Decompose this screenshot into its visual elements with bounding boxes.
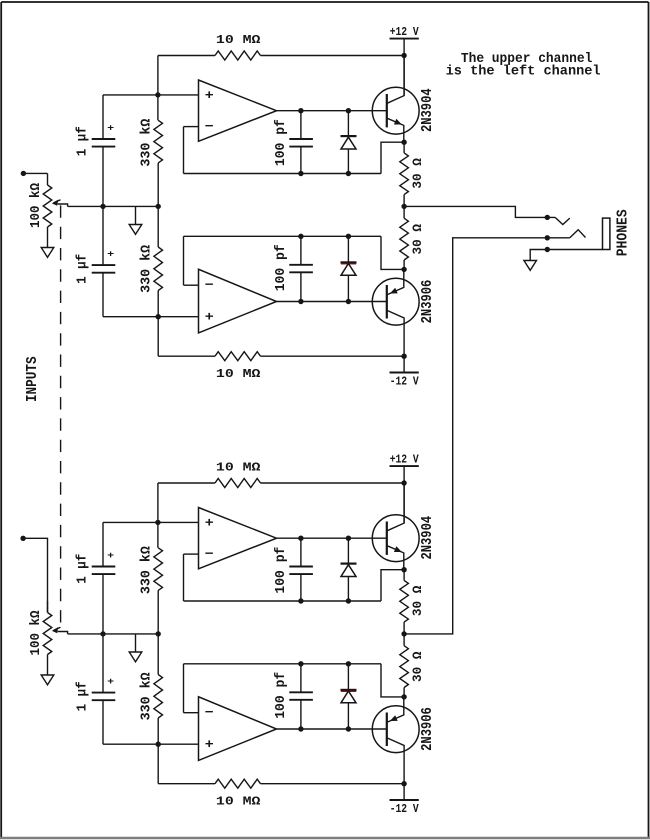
resistor R4 30 Ω top lead: [403, 142, 405, 153]
wire U1 feedback bottom rail: [184, 173, 382, 175]
capacitor C3 1 µf: [92, 692, 116, 694]
wire to -12V: [403, 356, 405, 372]
capacitor C2 100 pf top lead: [300, 538, 302, 566]
lower channel: [28, 452, 436, 816]
jack ring contact: [570, 230, 586, 238]
svg-text:330 kΩ: 330 kΩ: [139, 244, 155, 293]
svg-text:+12 V: +12 V: [390, 452, 419, 466]
ground under pot: [41, 248, 54, 258]
resistor R2 330 kΩ: [154, 548, 163, 591]
diode D1 top lead: [347, 538, 349, 563]
resistor R2 bottom lead: [157, 163, 159, 207]
transistor Q1 collector: [387, 56, 404, 104]
svg-text:100 kΩ: 100 kΩ: [28, 182, 44, 228]
svg-text:-12 V: -12 V: [390, 375, 419, 389]
svg-text:30 Ω: 30 Ω: [410, 224, 425, 255]
node U2 output-diode junction: [346, 726, 351, 731]
wire to -12V: [403, 784, 405, 800]
op-amp U2: [199, 269, 277, 333]
wire left drop to + input: [157, 483, 159, 522]
svg-text:100 pf: 100 pf: [274, 244, 289, 291]
diode D1 bottom lead: [347, 577, 349, 602]
potentiometer wiper arrow: [58, 632, 68, 634]
node U2 output-cap junction: [298, 299, 303, 304]
wire bottom rail right segment: [261, 783, 405, 785]
svg-text:2N3906: 2N3906: [420, 707, 436, 751]
transistor Q1 base bar: [386, 522, 388, 555]
node diode-rail junction: [346, 171, 351, 176]
node Q2 emitter junction: [401, 694, 406, 699]
capacitor C4 100 pf: [289, 691, 313, 693]
node + input junction: [155, 520, 160, 525]
svg-text:1 µf: 1 µf: [75, 126, 90, 156]
potentiometer R3 100 kΩ top lead: [47, 173, 49, 185]
resistor R4 30 Ω: [400, 580, 409, 622]
diode D2 cathode bar: [341, 261, 357, 263]
resistor R4 bottom lead: [403, 195, 405, 207]
svg-text:+: +: [107, 249, 114, 259]
capacitor C2 bottom lead: [300, 147, 302, 174]
transistor Q2 2N3906 circle: [372, 706, 419, 753]
transistor Q1 emitter: [387, 546, 404, 570]
resistor R2 330 kΩ top lead: [157, 95, 159, 120]
ground phones: [524, 261, 537, 271]
node sleeve junction: [545, 247, 550, 252]
node mid-cap junction: [100, 204, 105, 209]
node U2 output-cap junction: [298, 726, 303, 731]
node bottom rail junction: [401, 781, 406, 786]
transistor Q1 2N3904 circle: [372, 515, 419, 562]
node Q2 emitter junction: [401, 267, 406, 272]
wire top rail right segment: [261, 55, 405, 57]
svg-text:10 MΩ: 10 MΩ: [216, 794, 261, 808]
wire upper channel tap to tip: [404, 206, 555, 217]
ground mid: [129, 225, 142, 235]
transistor Q2 base bar: [386, 713, 388, 747]
node + input junction: [155, 92, 160, 97]
wire drop to bottom rail: [157, 744, 159, 784]
capacitor C4 bottom lead: [300, 272, 302, 301]
svg-text:10 MΩ: 10 MΩ: [216, 461, 261, 475]
node C4 top junction: [298, 661, 303, 666]
node diode-rail junction: [346, 598, 351, 603]
svg-text:100 pf: 100 pf: [274, 547, 289, 594]
transistor Q1 emitter: [387, 118, 404, 142]
wire emitter link to rail: [381, 142, 404, 173]
svg-text:330 kΩ: 330 kΩ: [139, 672, 155, 721]
input terminal upper: [21, 171, 26, 176]
svg-text:−: −: [205, 705, 214, 720]
wire emitter link to U2 rail: [381, 236, 404, 269]
capacitor C2 bottom lead: [300, 574, 302, 601]
svg-text:+: +: [107, 677, 114, 687]
wire U2 noninverting rail: [103, 316, 199, 318]
transistor Q1 2N3904 circle: [372, 87, 419, 134]
svg-text:+: +: [205, 88, 214, 103]
node mid-cap junction: [100, 631, 105, 636]
power rail bar +12V: [390, 38, 419, 40]
transistor Q2 emitter: [387, 269, 404, 294]
op-amp U1: [199, 508, 277, 569]
wire U2 inverting input: [184, 712, 199, 714]
wire cap C1 bottom lead: [102, 574, 104, 634]
wire U2 noninverting rail: [103, 743, 199, 745]
node U2 + input junction: [156, 742, 161, 747]
resistor R6 330 kΩ: [154, 675, 163, 719]
node output-diode junction: [346, 536, 351, 541]
wire top rail left segment: [158, 55, 215, 57]
svg-text:30 Ω: 30 Ω: [410, 585, 425, 616]
ground stub mid rail: [135, 634, 137, 652]
wire bottom rail left segment: [158, 783, 215, 785]
resistor R5 30 Ω top lead: [403, 206, 405, 218]
diode D1 cathode bar: [341, 135, 357, 137]
node channel output: [401, 204, 406, 209]
input terminal lower: [20, 536, 25, 541]
capacitor C4 100 pf top lead: [300, 236, 302, 264]
capacitor C2 100 pf top lead: [300, 111, 302, 139]
capacitor C3 1 µf: [92, 264, 116, 266]
wire cap C1 top lead: [102, 95, 104, 139]
svg-text:2N3904: 2N3904: [420, 516, 436, 560]
capacitor C1 1 µf: [92, 138, 116, 140]
transistor Q2 emitter: [387, 697, 404, 722]
dashed inputs boundary: [60, 205, 62, 622]
diode D1 bottom lead: [347, 149, 349, 174]
svg-text:+12 V: +12 V: [390, 25, 419, 39]
diode D2 triangle: [341, 264, 356, 276]
potentiometer wiper arrow: [58, 204, 68, 206]
resistor R5 bottom lead: [403, 260, 405, 269]
power rail bar +12V: [390, 465, 419, 467]
transistor Q2 collector: [387, 738, 404, 784]
page border frame: [1, 1, 648, 3]
resistor R5 30 Ω: [400, 646, 409, 688]
diode D1 cathode bar: [341, 562, 357, 564]
node Q1 emitter junction: [401, 140, 406, 145]
node output-cap junction: [298, 536, 303, 541]
svg-text:INPUTS: INPUTS: [25, 356, 41, 402]
wire bottom rail left segment: [158, 355, 215, 357]
diode D1 triangle: [341, 565, 356, 577]
resistor R6 330 kΩ top lead: [157, 206, 159, 247]
node C4 top junction: [298, 234, 303, 239]
potentiometer R3 100 kΩ: [43, 613, 52, 655]
resistor R7 10 MΩ: [215, 352, 261, 361]
node +12V rail junction: [401, 53, 406, 58]
svg-text:330 kΩ: 330 kΩ: [139, 118, 155, 167]
wire input lower: [23, 538, 47, 612]
node U2 + input junction: [156, 314, 161, 319]
diode D2 red mark: [341, 690, 356, 692]
capacitor C1 1 µf: [92, 566, 116, 568]
wire U2 output rail: [277, 728, 387, 730]
resistor R5 bottom lead: [403, 688, 405, 697]
wire input upper: [23, 172, 47, 174]
wire drop to bottom rail: [157, 317, 159, 357]
capacitor C4 100 pf: [289, 264, 313, 266]
node channel output: [401, 631, 406, 636]
wire emitter link to rail: [381, 570, 404, 601]
wire cap C1 top lead: [102, 522, 104, 566]
pot bottom lead: [47, 227, 49, 248]
resistor R6 bottom lead: [157, 718, 159, 744]
svg-text:30 Ω: 30 Ω: [410, 651, 425, 682]
phone jack body: [603, 218, 610, 249]
wire cap C1 bottom lead: [102, 147, 104, 207]
resistor R6 330 kΩ: [154, 247, 163, 291]
ground mid: [129, 652, 142, 662]
resistor R1 10 MΩ: [215, 51, 261, 60]
resistor R2 bottom lead: [157, 590, 159, 634]
wire U2 inverting input: [184, 284, 199, 286]
wire collector/+12V vertical: [403, 39, 405, 96]
svg-text:330 kΩ: 330 kΩ: [139, 546, 155, 595]
op-amp U1: [199, 80, 277, 141]
svg-text:30 Ω: 30 Ω: [410, 158, 425, 189]
svg-text:10 MΩ: 10 MΩ: [216, 33, 261, 47]
node tip contact junction: [545, 215, 550, 220]
wire U1 output rail: [277, 110, 387, 112]
transistor Q2 base bar: [386, 285, 388, 319]
wire U2 feedback rise: [183, 236, 185, 285]
svg-text:+: +: [107, 123, 114, 133]
resistor R2 330 kΩ top lead: [157, 522, 159, 547]
wire U2 output rail: [277, 301, 387, 303]
wire noninverting input rail: [103, 94, 199, 96]
svg-text:-12 V: -12 V: [390, 802, 419, 816]
svg-text:+: +: [205, 737, 214, 752]
node D2 top junction: [346, 234, 351, 239]
wire U1 inverting input: [184, 126, 199, 128]
capacitor C2 100 pf: [289, 138, 313, 140]
node output-diode junction: [346, 108, 351, 113]
transistor Q2 collector: [387, 311, 404, 357]
svg-text:100 pf: 100 pf: [274, 672, 289, 719]
wire U1 inverting input: [184, 553, 199, 555]
ground stub mid rail: [135, 206, 137, 224]
svg-text:1 µf: 1 µf: [75, 554, 90, 584]
svg-text:+: +: [107, 551, 114, 561]
resistor R4 30 Ω top lead: [403, 570, 405, 581]
diode D2 bottom lead: [347, 703, 349, 729]
transistor Q1 collector: [387, 483, 404, 531]
capacitor C2 100 pf: [289, 566, 313, 568]
capacitor C4 bottom lead: [300, 700, 302, 729]
svg-text:100 kΩ: 100 kΩ: [28, 610, 44, 656]
wire U1 feedback drop: [183, 127, 185, 174]
resistor R5 30 Ω top lead: [403, 634, 405, 646]
resistor R2 330 kΩ: [154, 120, 163, 163]
node ring contact junction: [545, 235, 550, 240]
svg-text:PHONES: PHONES: [616, 209, 632, 256]
diode D2 top lead: [347, 236, 349, 262]
capacitor C3 1 µf top lead: [102, 206, 104, 265]
svg-text:2N3904: 2N3904: [420, 88, 436, 132]
node +12V rail junction: [401, 480, 406, 485]
pot bottom lead: [47, 655, 49, 676]
node bottom rail junction: [401, 354, 406, 359]
jack tip contact: [555, 217, 570, 224]
power rail bar -12V: [390, 799, 419, 801]
node mid-330k junction: [156, 204, 161, 209]
wire U2 feedback top rail: [184, 235, 382, 237]
node U2 output-diode junction: [346, 299, 351, 304]
node D2 top junction: [346, 661, 351, 666]
capacitor C4 100 pf top lead: [300, 664, 302, 693]
diode D2 cathode bar: [341, 689, 357, 691]
node output-cap junction: [298, 108, 303, 113]
svg-text:10 MΩ: 10 MΩ: [216, 367, 261, 381]
diode D2 red mark: [341, 263, 356, 265]
svg-text:+: +: [205, 515, 214, 530]
capacitor C3 bottom lead: [102, 273, 104, 317]
resistor R4 30 Ω: [400, 153, 409, 195]
diode D2 bottom lead: [347, 275, 349, 301]
diode D2 top lead: [347, 664, 349, 690]
wire mid rail: [68, 633, 159, 635]
wire U1 feedback drop: [183, 554, 185, 601]
op-amp U2: [199, 697, 277, 761]
resistor R6 bottom lead: [157, 291, 159, 317]
svg-text:−: −: [205, 546, 214, 561]
power rail bar -12V: [390, 372, 419, 374]
wire sleeve to ground: [530, 250, 602, 261]
wire noninverting input rail: [103, 521, 199, 523]
node cap-rail junction: [298, 171, 303, 176]
svg-text:1 µf: 1 µf: [75, 254, 90, 284]
capacitor C3 1 µf top lead: [102, 634, 104, 693]
wire left drop to + input: [157, 56, 159, 95]
wire lower channel tap to ring: [404, 238, 570, 634]
svg-text:−: −: [205, 278, 214, 293]
resistor R4 bottom lead: [403, 622, 405, 634]
capacitor C3 bottom lead: [102, 700, 104, 744]
transistor Q1 base bar: [386, 94, 388, 127]
wire bottom rail right segment: [261, 355, 405, 357]
resistor R7 10 MΩ: [215, 779, 261, 788]
wire top rail left segment: [158, 482, 215, 484]
wire top rail right segment: [261, 482, 405, 484]
transistor Q2 2N3906 circle: [372, 278, 419, 325]
wire U2 feedback rise: [183, 664, 185, 713]
node mid-330k junction: [156, 631, 161, 636]
wire emitter link to U2 rail: [381, 664, 404, 697]
upper channel: [28, 25, 436, 389]
wire U1 feedback bottom rail: [184, 600, 382, 602]
wire mid rail: [68, 205, 159, 207]
svg-text:−: −: [205, 119, 214, 134]
svg-text:is the left channel: is the left channel: [446, 65, 601, 80]
svg-text:100 pf: 100 pf: [274, 119, 289, 166]
diode D1 triangle: [341, 137, 356, 149]
wire U2 feedback top rail: [184, 663, 382, 665]
node cap-rail junction: [298, 598, 303, 603]
svg-text:2N3906: 2N3906: [420, 280, 436, 324]
node Q1 emitter junction: [401, 567, 406, 572]
resistor R6 330 kΩ top lead: [157, 634, 159, 675]
svg-text:1 µf: 1 µf: [75, 681, 90, 711]
diode D1 top lead: [347, 111, 349, 136]
ground under pot: [41, 675, 54, 685]
potentiometer R3 100 kΩ: [43, 185, 52, 227]
resistor R1 10 MΩ: [215, 479, 261, 488]
svg-text:+: +: [205, 310, 214, 325]
diode D2 triangle: [341, 691, 356, 703]
wire collector/+12V vertical: [403, 466, 405, 523]
resistor R5 30 Ω: [400, 218, 409, 260]
potentiometer R3 100 kΩ top lead: [47, 601, 49, 613]
wire U1 output rail: [277, 537, 387, 539]
